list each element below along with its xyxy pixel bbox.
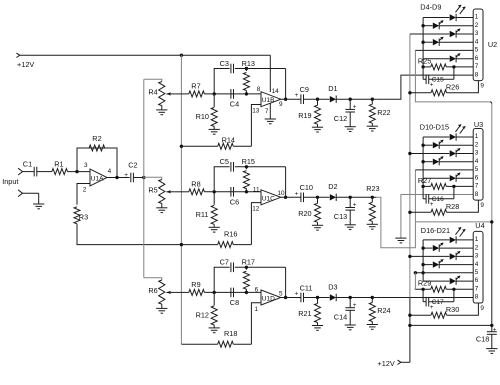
node R15 bottom (245, 190, 248, 193)
resistor R11 (196, 192, 218, 228)
wire feedback down (285, 167, 287, 198)
wire feedback down (285, 267, 287, 297)
svg-text:C17: C17 (432, 299, 444, 306)
svg-text:1: 1 (475, 14, 479, 21)
svg-text:R29: R29 (418, 279, 431, 288)
ground C18 (486, 349, 497, 354)
svg-text:7: 7 (475, 183, 479, 190)
svg-text:C13: C13 (334, 212, 347, 221)
node anode row2 (421, 246, 424, 249)
svg-text:C14: C14 (334, 312, 347, 321)
svg-text:R28: R28 (446, 202, 459, 211)
pin 3 U2 (475, 30, 479, 37)
LED D15 row6 (423, 173, 473, 182)
LED D6 row3 (410, 29, 473, 38)
ground R19 (312, 127, 323, 132)
potentiometer R6 (148, 280, 174, 308)
op-amp U1D (255, 287, 284, 313)
svg-text:4: 4 (108, 168, 112, 175)
wire R1 to node (68, 171, 91, 173)
resistor R3 (74, 207, 88, 224)
diode D1 (328, 84, 337, 103)
svg-text:8: 8 (475, 71, 479, 78)
resistor R15 (242, 157, 255, 192)
svg-text:+: + (124, 172, 128, 179)
svg-text:4: 4 (475, 261, 479, 268)
svg-text:C5: C5 (220, 157, 229, 166)
svg-text:R2: R2 (92, 134, 101, 143)
wire pin9 U4 (447, 303, 485, 315)
svg-text:U3: U3 (474, 120, 483, 129)
svg-text:D16-D21: D16-D21 (421, 226, 450, 235)
ground C14 (345, 325, 356, 330)
wire input lower to ground (23, 193, 39, 204)
capacitor C18 (476, 325, 497, 348)
svg-text:+: + (430, 201, 434, 208)
svg-text:R5: R5 (148, 185, 157, 194)
node R21 (316, 296, 319, 299)
svg-text:+: + (430, 304, 434, 311)
wire wiper to R9 (175, 291, 189, 293)
+12V bottom terminal (378, 359, 401, 368)
svg-text:7: 7 (265, 108, 269, 115)
op-amp U1C (252, 186, 285, 212)
svg-text:R14: R14 (222, 136, 235, 145)
svg-text:R7: R7 (191, 82, 200, 91)
pin 4 U2 (475, 38, 479, 45)
pin 3 U3 (475, 150, 479, 157)
svg-text:8: 8 (475, 191, 479, 198)
resistor R19 (298, 99, 320, 127)
ground R5 (156, 208, 167, 213)
capacitor C8 (230, 288, 239, 307)
svg-text:Input: Input (2, 177, 18, 186)
LED D19 row4 (423, 259, 473, 268)
ground R20 (312, 225, 323, 230)
svg-text:D2: D2 (328, 182, 337, 191)
svg-text:R24: R24 (377, 306, 390, 315)
wire node up to C3 (214, 69, 229, 94)
IC U3 (473, 120, 483, 200)
wire U1B pin lower (251, 105, 261, 147)
op-amp U1B (252, 86, 283, 115)
pin 5 U4 (475, 269, 479, 276)
node R27 left (421, 185, 424, 188)
wire pin5 row (415, 272, 473, 274)
svg-text:C11: C11 (300, 283, 313, 292)
pin 8 U4 (475, 294, 479, 301)
svg-text:+12V: +12V (378, 359, 395, 368)
wire feedback down (285, 69, 287, 100)
node C14 (349, 296, 352, 299)
ground U3 pin8 (395, 238, 406, 243)
pin 4 U3 (475, 158, 479, 165)
resistor R12 (196, 292, 218, 328)
svg-text:C9: C9 (300, 85, 309, 94)
pin 6 U3 (475, 174, 479, 181)
wire wiper to R8 (175, 191, 189, 193)
svg-text:4: 4 (475, 158, 479, 165)
node U4 pin5 bus (421, 271, 424, 274)
wire U1B pin7 to ground (269, 103, 271, 119)
wire anode bus U3 (422, 137, 424, 186)
svg-text:6: 6 (475, 55, 479, 62)
svg-text:11: 11 (253, 186, 260, 193)
svg-text:R11: R11 (196, 210, 209, 219)
pin 5 U2 (475, 47, 479, 54)
svg-text:D1: D1 (328, 84, 337, 93)
svg-text:+: + (493, 327, 497, 334)
svg-text:+: + (353, 202, 357, 209)
svg-text:6: 6 (255, 287, 259, 294)
svg-text:+: + (295, 92, 299, 99)
svg-text:R13: R13 (242, 59, 255, 68)
potentiometer R4 (148, 82, 174, 110)
node R29 right (452, 288, 455, 291)
wire C3 to R13 row (235, 68, 286, 70)
svg-text:+: + (353, 104, 357, 111)
node bias R14 (180, 145, 183, 148)
wire node up to C5 (214, 167, 229, 192)
svg-text:12: 12 (252, 206, 260, 213)
capacitor C5 (220, 157, 234, 171)
wire pin9 U2 (447, 81, 485, 93)
capacitor C17 (423, 289, 454, 311)
svg-text:6: 6 (475, 174, 479, 181)
wire +12V entry (401, 361, 410, 363)
svg-text:R17: R17 (242, 258, 255, 267)
svg-text:1: 1 (475, 133, 479, 140)
ground C13 (345, 225, 356, 230)
wire wiper to R7 (175, 93, 189, 95)
resistor R29 (415, 279, 474, 293)
node R25 right (452, 65, 455, 68)
pin 6 U4 (475, 277, 479, 284)
svg-text:U2: U2 (488, 40, 497, 49)
svg-text:C2: C2 (128, 160, 137, 169)
capacitor C11 (295, 283, 313, 302)
ground input (33, 204, 44, 209)
capacitor C4 (230, 89, 239, 108)
svg-text:R8: R8 (191, 180, 200, 189)
wire band2 route (376, 197, 492, 247)
node R17 bottom (245, 291, 248, 294)
wire bus to R4 (144, 79, 162, 81)
diode D3 (328, 282, 337, 301)
input terminal (2, 168, 22, 186)
svg-text:U1C: U1C (262, 195, 275, 202)
svg-text:9: 9 (480, 202, 484, 209)
node R20 (316, 196, 319, 199)
pin 2 U4 (475, 244, 479, 251)
LED D5 row2 (423, 20, 473, 29)
ground R12 (209, 328, 220, 333)
resistor R14 (181, 136, 251, 150)
svg-text:3: 3 (475, 253, 479, 260)
resistor R28 (410, 202, 459, 215)
ground R23 (367, 224, 378, 229)
pin 1 U4 (475, 236, 479, 243)
node U1A out feedback (115, 176, 118, 179)
resistor R25 (418, 56, 473, 70)
svg-text:U4: U4 (475, 221, 484, 230)
svg-text:1: 1 (255, 306, 259, 313)
wire C5 to R15 row (235, 166, 286, 168)
svg-text:R25: R25 (418, 56, 431, 65)
svg-text:2: 2 (475, 244, 479, 251)
wire U3 pin8 ground feed (401, 195, 473, 239)
label LEDs D10-D15 (420, 123, 449, 132)
wire anode bus U2 (422, 18, 424, 67)
wire D1 to R22 (336, 98, 376, 100)
svg-text:R15: R15 (242, 157, 255, 166)
svg-text:D3: D3 (328, 282, 337, 291)
wire node up to C7 (214, 267, 229, 292)
wire D2 to R23 (336, 196, 376, 198)
node filter 2 (213, 190, 216, 193)
ground R11 (209, 227, 220, 232)
svg-text:5: 5 (475, 166, 479, 173)
svg-text:+: + (430, 82, 434, 89)
wire C7 to R17 row (235, 266, 286, 268)
wire C1 to R1 (37, 171, 52, 173)
wire anode bus U4 (422, 240, 424, 281)
ground C12 (345, 127, 356, 132)
pin 2 U3 (475, 141, 479, 148)
ground U1B (265, 119, 276, 124)
node U1A input (75, 170, 78, 173)
svg-text:R3: R3 (79, 212, 88, 221)
capacitor C12 (334, 99, 357, 127)
LED D10 row1 (423, 124, 473, 140)
svg-text:5: 5 (475, 269, 479, 276)
node R13 top (245, 67, 248, 70)
svg-text:R12: R12 (196, 310, 209, 319)
LED D18 row3 (410, 251, 473, 260)
IC U2 (473, 9, 497, 81)
node riser row3 (408, 255, 411, 258)
svg-text:13: 13 (252, 108, 260, 115)
node R30 riser (408, 314, 411, 317)
wire U1C out (281, 196, 301, 198)
svg-text:R27: R27 (418, 176, 431, 185)
resistor R17 (242, 258, 255, 293)
pin 8 U3 (475, 191, 479, 198)
wire audio bus (143, 79, 145, 277)
capacitor C3 (220, 59, 234, 73)
svg-text:C6: C6 (230, 197, 239, 206)
svg-text:7: 7 (475, 63, 479, 70)
wire R7 to node (204, 93, 261, 95)
node anode row4 (421, 263, 424, 266)
wire U3 pin5 route (414, 170, 416, 222)
ground R21 (312, 326, 323, 331)
wire C18 row (410, 324, 492, 326)
wire C2 to bus (133, 177, 143, 179)
svg-text:3: 3 (84, 162, 88, 169)
svg-text:+: + (295, 291, 299, 298)
svg-text:2: 2 (83, 187, 87, 194)
svg-text:7: 7 (475, 286, 479, 293)
pin 5 U3 (475, 166, 479, 173)
svg-text:10: 10 (277, 190, 285, 197)
resistor R16 (181, 230, 251, 248)
wire U1A pin2 (77, 184, 90, 205)
wire input to C1 (23, 171, 35, 173)
node right riser (490, 220, 493, 223)
pin 3 U4 (475, 253, 479, 260)
wire U2 pin5 route (415, 50, 491, 325)
svg-text:C1: C1 (23, 159, 32, 168)
capacitor C1 (23, 159, 37, 176)
svg-text:2: 2 (475, 22, 479, 29)
capacitor C14 (334, 298, 357, 326)
svg-text:3: 3 (475, 150, 479, 157)
LED D9 row6 (423, 53, 473, 62)
svg-text:R1: R1 (54, 159, 63, 168)
wire U1B power pin14 (269, 55, 271, 92)
pin 1 U2 (475, 14, 479, 21)
resistor R24 (369, 298, 390, 325)
LED D16 row1 (423, 227, 473, 243)
resistor R23 (366, 184, 379, 224)
svg-text:C8: C8 (230, 298, 239, 307)
node anode row2 (421, 144, 424, 147)
wire pin9 U3 (447, 200, 485, 212)
wire U1A output (107, 177, 130, 179)
node U1D out (284, 296, 287, 299)
ground R10 (209, 129, 220, 134)
pin 7 U4 (475, 286, 479, 293)
resistor R20 (298, 197, 320, 225)
wire +12V rail (20, 54, 270, 56)
ground R24 (367, 325, 378, 330)
pin 6 U2 (475, 55, 479, 62)
svg-text:C16: C16 (432, 196, 444, 203)
svg-text:R16: R16 (224, 230, 237, 239)
resistor R22 (369, 99, 390, 126)
svg-text:U1A: U1A (91, 175, 104, 182)
svg-text:2: 2 (475, 141, 479, 148)
wire R8 to node (204, 191, 261, 193)
ground R22 (367, 126, 378, 131)
LED D17 row2 (423, 243, 473, 252)
node anode row4 (421, 160, 424, 163)
node R22 (371, 98, 374, 101)
pin 4 U4 (475, 261, 479, 268)
node +12V to bias bus (180, 54, 183, 57)
svg-text:C12: C12 (334, 114, 347, 123)
svg-text:R30: R30 (446, 305, 459, 314)
node U1B out (284, 98, 287, 101)
svg-text:R10: R10 (196, 112, 209, 121)
node bias R16 (180, 243, 183, 246)
resistor R27 (418, 176, 473, 190)
capacitor C16 (423, 186, 454, 208)
wire U1C pin lower (251, 203, 261, 245)
svg-text:R19: R19 (298, 111, 311, 120)
node C18 top (490, 324, 493, 327)
LED D7 row4 (423, 37, 473, 46)
node R17 top (245, 266, 248, 269)
capacitor C15 (423, 67, 454, 89)
svg-text:R6: R6 (148, 286, 157, 295)
wire pin5 row (415, 169, 473, 171)
resistor R26 (410, 83, 459, 96)
svg-text:R4: R4 (148, 88, 157, 97)
wire bus to R6 (144, 278, 162, 280)
LED D21 row6 (423, 276, 473, 285)
svg-text:8: 8 (257, 86, 261, 93)
svg-text:3: 3 (475, 30, 479, 37)
svg-text:+12V: +12V (17, 60, 34, 69)
wire feedback loop R2 (77, 148, 117, 178)
wire R3 to bias row (77, 224, 181, 245)
svg-text:+: + (353, 302, 357, 309)
svg-text:U1B: U1B (262, 97, 275, 104)
svg-text:1: 1 (475, 236, 479, 243)
wire band1 to U2 pin8 (376, 75, 473, 99)
wire U1D out (281, 297, 301, 299)
pin 7 U3 (475, 183, 479, 190)
svg-text:C4: C4 (230, 100, 239, 109)
node audio bus (142, 176, 145, 179)
wire +12V riser (409, 34, 411, 362)
LED D11 row2 (423, 140, 473, 149)
op-amp U1A (83, 162, 112, 194)
label LEDs D4-D9 (420, 3, 441, 12)
svg-text:9: 9 (480, 305, 484, 312)
svg-text:6: 6 (475, 277, 479, 284)
ground R4 (156, 110, 167, 115)
node R26 riser (408, 91, 411, 94)
node R13 bottom (245, 92, 248, 95)
pin 2 U2 (475, 22, 479, 29)
capacitor C13 (334, 197, 357, 225)
node R25 left (421, 65, 424, 68)
wire C11 to D3 (304, 297, 330, 299)
capacitor C10 (295, 183, 313, 202)
node R15 top (245, 165, 248, 168)
resistor R9 (189, 280, 205, 295)
resistor R8 (189, 180, 205, 195)
wire D3 to R24 (336, 297, 376, 299)
node R27 right (452, 185, 455, 188)
wire pin5 row (415, 49, 473, 51)
ground R6 (156, 308, 167, 313)
wire R9 to node (204, 291, 261, 293)
resistor R30 (410, 305, 459, 318)
node R23 (371, 196, 374, 199)
pin 7 U2 (475, 63, 479, 70)
potentiometer R5 (148, 180, 174, 208)
pin 1 U3 (475, 133, 479, 140)
node filter 1 (213, 92, 216, 95)
capacitor C7 (220, 258, 234, 272)
node C13 (349, 196, 352, 199)
LED D12 row3 (410, 148, 473, 157)
resistor R21 (298, 298, 320, 326)
resistor R13 (242, 59, 255, 94)
input lower terminal (18, 190, 22, 197)
capacitor C2 (124, 160, 137, 182)
+12V supply terminal (16, 53, 34, 69)
label LEDs D16-D21 (421, 226, 450, 235)
svg-text:8: 8 (475, 294, 479, 301)
node U1C out (284, 196, 287, 199)
wire bus to R5 (144, 177, 162, 179)
resistor R2 (89, 134, 105, 151)
